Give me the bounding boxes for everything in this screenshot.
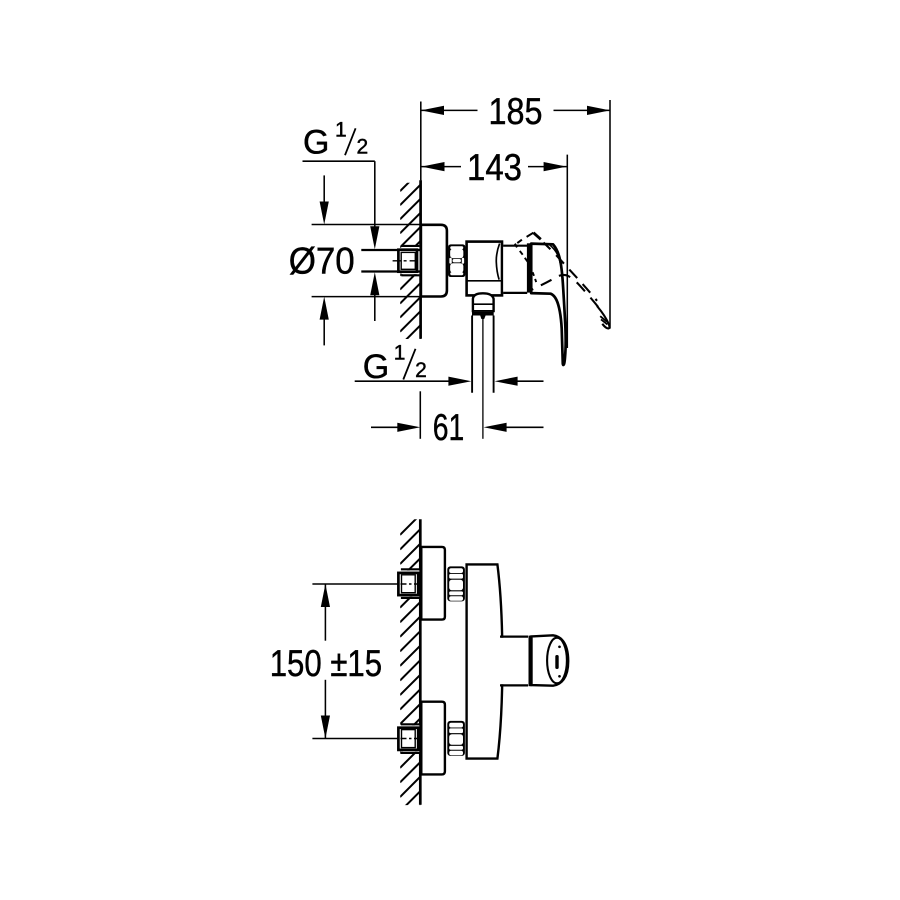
outlet slot (555, 655, 558, 669)
dashed raised-handle peak (515, 233, 541, 248)
wall clearance hole, upper union (401, 570, 420, 596)
lower hex nut (front view) (447, 721, 465, 756)
union square nut on pipe (398, 250, 417, 272)
outlet nipple tab (480, 316, 485, 320)
upper escutcheon (front view) (421, 547, 445, 620)
handle collar band (527, 243, 531, 292)
dimension diameter 70 (312, 224, 420, 226)
dimension 185 (420, 102, 422, 181)
dimension 150 +/-15 (324, 584, 326, 641)
wall clearance hole for union (401, 247, 419, 274)
wall face line (front view) (419, 519, 422, 805)
wall clearance hole, lower union (401, 725, 420, 751)
svg-text:2: 2 (357, 135, 369, 158)
extension line lower (150 dim) (312, 738, 398, 740)
dashed handle interior line (520, 251, 536, 282)
svg-text:143: 143 (467, 146, 522, 188)
shower outlet collar below body (473, 293, 494, 312)
extension line upper (150 dim) (312, 583, 398, 585)
hex connection nut (side view) (448, 244, 465, 277)
mixer body (front view) (467, 564, 503, 758)
svg-text:G: G (363, 348, 389, 386)
lever handle (solid, side view) (531, 244, 565, 365)
svg-text:1: 1 (394, 342, 406, 365)
cartridge hub (side view) (503, 247, 527, 292)
outlet joint band (529, 636, 532, 687)
outlet neck (500, 638, 529, 685)
shower hose pipe walls (471, 316, 473, 393)
svg-text:1: 1 (335, 119, 347, 142)
pipe centre line (dash-dot) (393, 260, 419, 262)
wall hatching (front view) (400, 514, 421, 826)
handle crease line (550, 245, 561, 265)
raised handle tip hook (597, 306, 609, 328)
svg-text:Ø70: Ø70 (289, 239, 355, 281)
outlet seal band (black) (472, 312, 494, 316)
outlet cap (532, 635, 569, 685)
dimension 143 (566, 155, 568, 348)
dashed raised handle upper edge (544, 243, 598, 301)
svg-text:61: 61 (433, 406, 465, 448)
upper union square nut (398, 573, 418, 595)
wall face line (side view) (419, 180, 422, 338)
centre line in upper union nut (401, 583, 418, 585)
svg-text:G: G (303, 123, 329, 161)
dashed raised handle lower edge (532, 275, 599, 308)
wall hatching (side view) (400, 170, 421, 360)
lower escutcheon (front view) (421, 702, 445, 775)
outlet face ellipse (547, 638, 567, 684)
lower union square nut (398, 728, 418, 750)
svg-text:150 ±15: 150 ±15 (270, 642, 382, 684)
mixer body (side view) (467, 242, 502, 296)
escutcheon (wall rosette, side view) (421, 225, 447, 297)
pipe axis line (482, 319, 484, 439)
svg-text:185: 185 (489, 90, 543, 132)
upper hex nut (front view) (447, 566, 465, 601)
supply pipe in wall (361, 251, 420, 270)
centre line in lower union nut (401, 738, 418, 740)
svg-text:2: 2 (415, 359, 427, 382)
outlet face dots (558, 645, 561, 648)
dimension 61 (419, 391, 421, 439)
